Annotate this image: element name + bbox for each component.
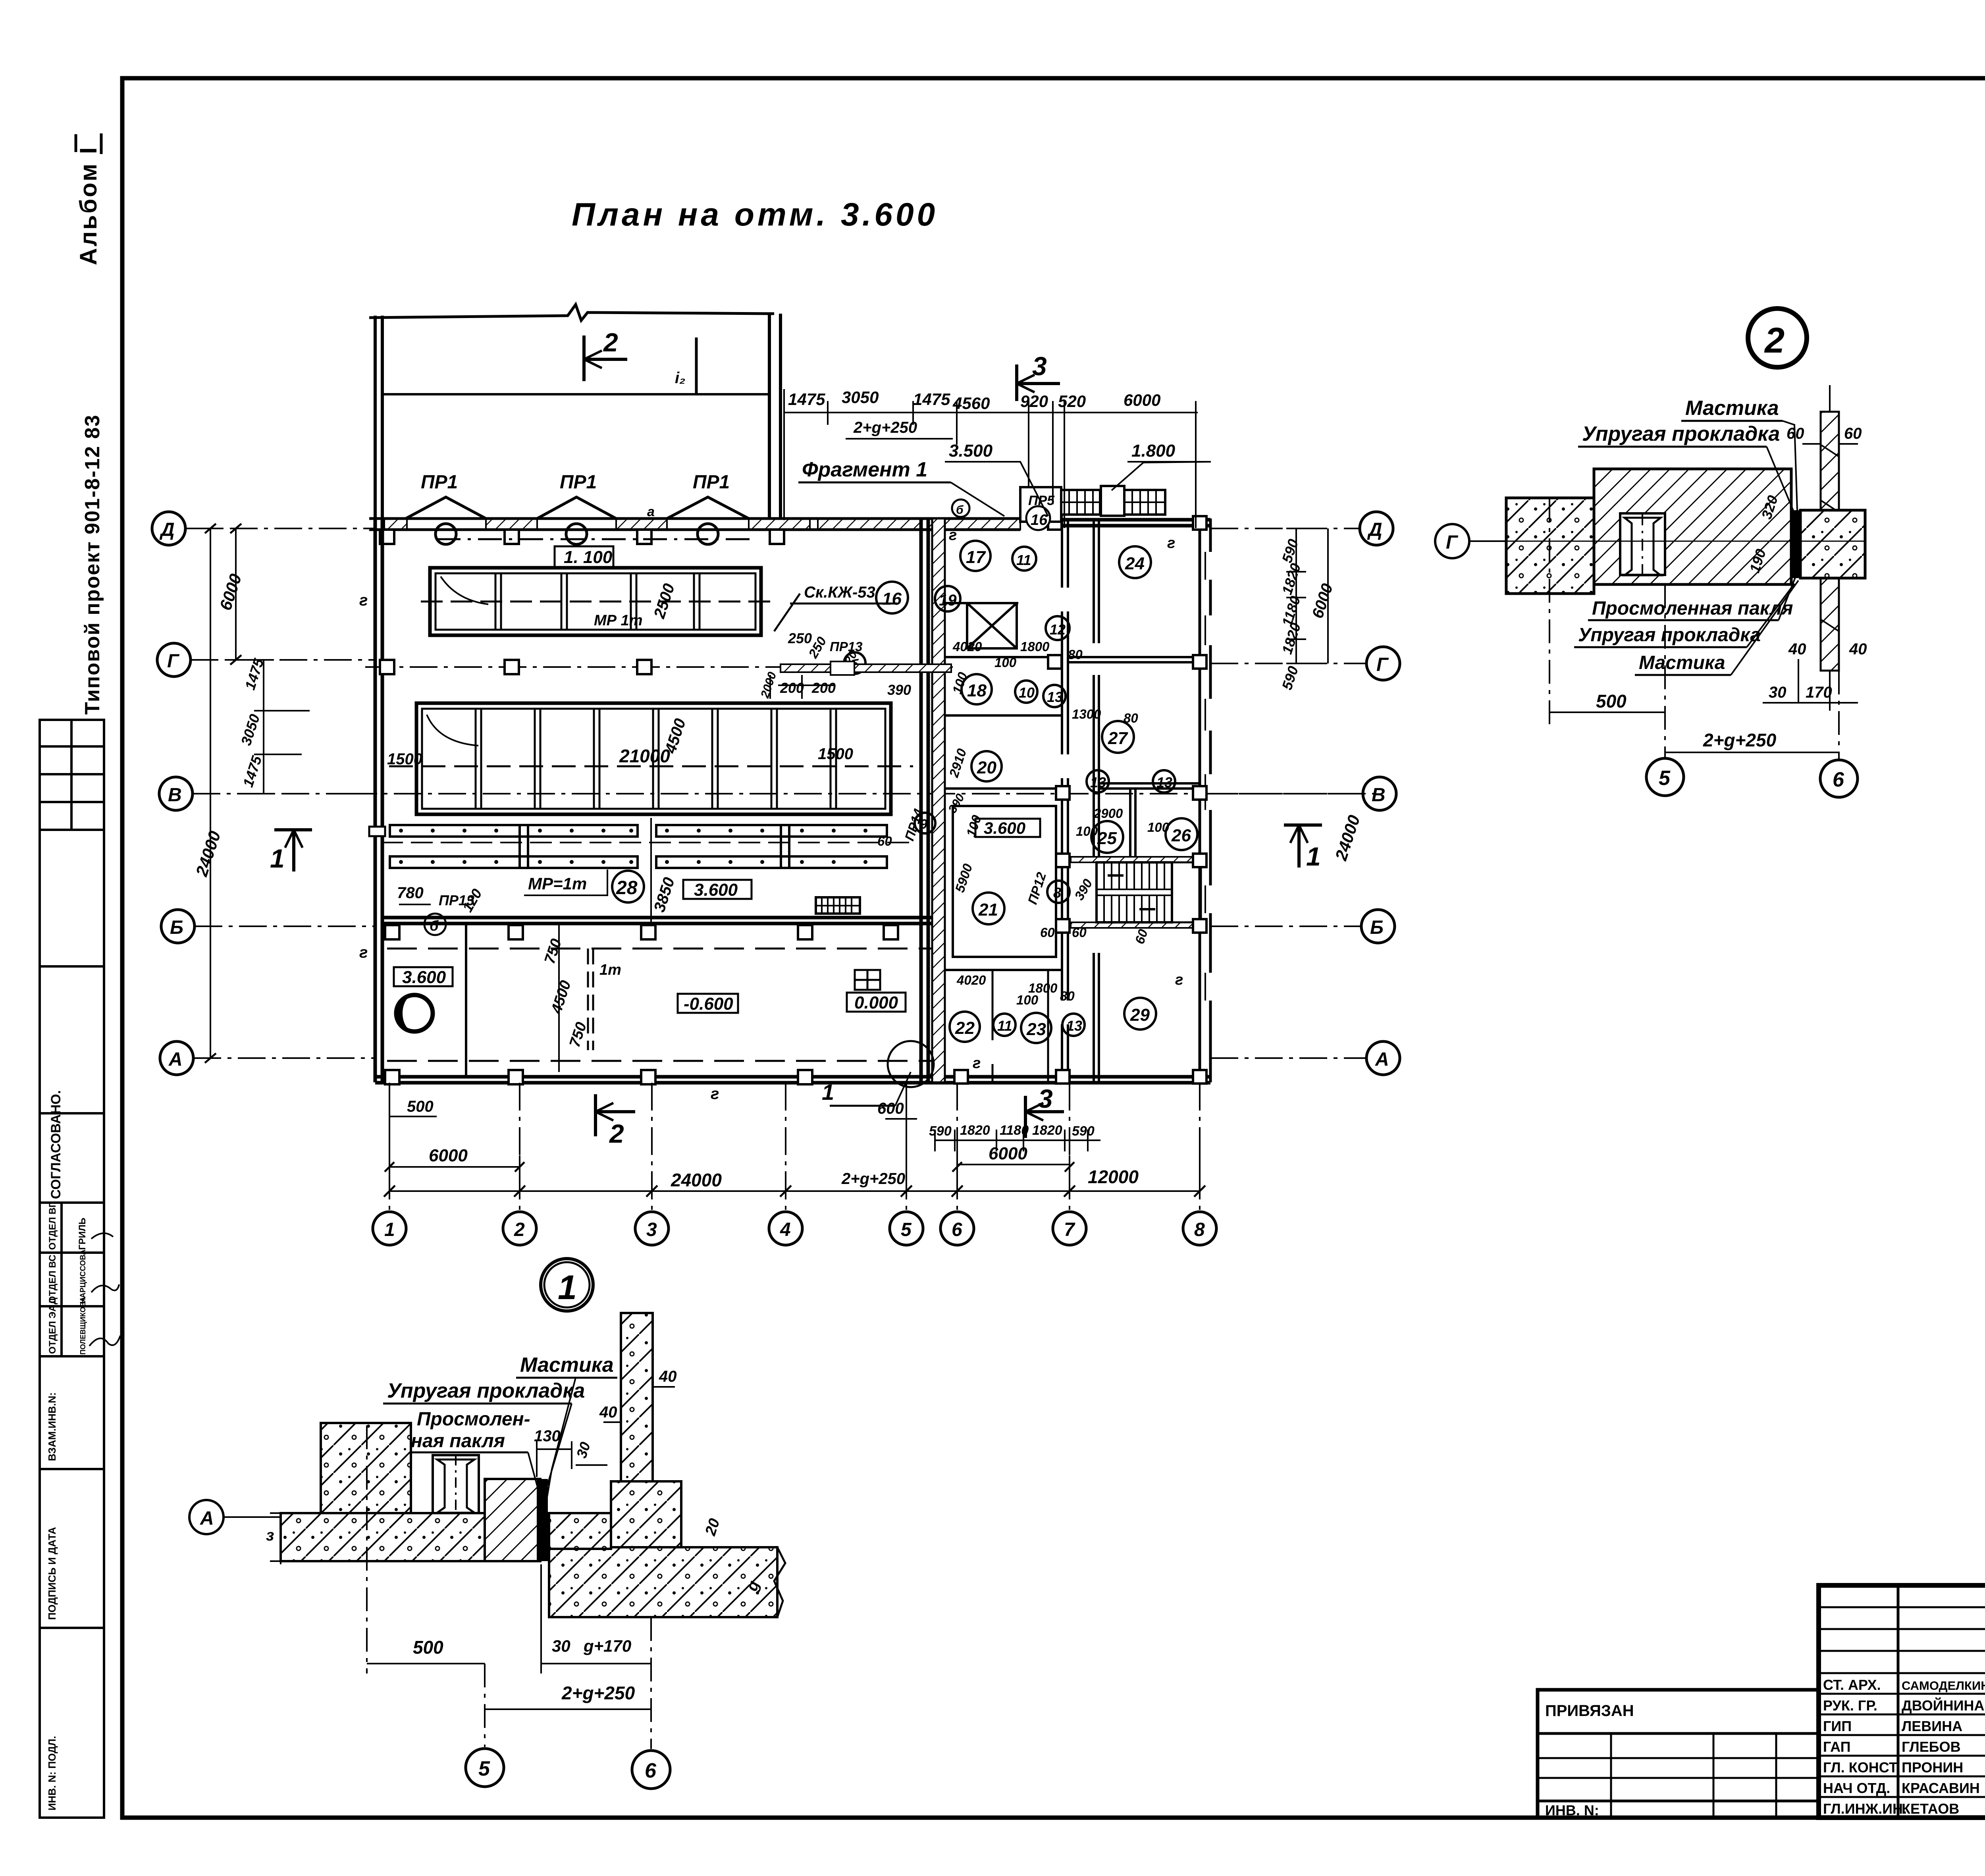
svg-text:10: 10 [1019, 684, 1035, 701]
circled b left [424, 914, 446, 935]
right axis lines + bubbles [1210, 528, 1366, 1058]
wall row B (Б) [382, 916, 945, 920]
svg-text:г: г [1167, 535, 1175, 551]
left bubbles [152, 512, 195, 1075]
rooms 25/26 top wall [1099, 787, 1200, 790]
svg-text:Альбом I: Альбом I [75, 146, 102, 265]
svg-text:1800: 1800 [1020, 639, 1050, 654]
level 3.600 lower-left [394, 967, 453, 986]
svg-text:г: г [359, 592, 368, 609]
svg-text:ГАП: ГАП [1823, 1739, 1851, 1755]
svg-text:6000: 6000 [1124, 391, 1160, 409]
svg-text:7: 7 [1064, 1219, 1075, 1240]
bottom grid bubbles [373, 1212, 1216, 1245]
svg-text:60: 60 [1072, 925, 1087, 940]
album label: Альбом I [75, 133, 102, 265]
right bubbles [1360, 512, 1400, 1075]
svg-text:б: б [430, 918, 439, 934]
svg-text:ГЛЕБОВ: ГЛЕБОВ [1902, 1739, 1961, 1755]
svg-text:21: 21 [978, 900, 998, 920]
svg-text:28: 28 [616, 877, 638, 898]
svg-text:6: 6 [1833, 768, 1844, 791]
section mark 2 bottom [595, 1094, 635, 1136]
svg-text:40: 40 [659, 1368, 677, 1385]
svg-text:г: г [711, 1085, 719, 1103]
svg-text:3: 3 [646, 1219, 657, 1240]
node1 upper wall panel [621, 1313, 653, 1481]
svg-text:Д: Д [159, 519, 175, 540]
svg-text:Мастика: Мастика [1639, 652, 1725, 673]
node1 break mark right [774, 1547, 785, 1617]
svg-text:г: г [949, 527, 957, 544]
room22/23 partitions [992, 970, 994, 1040]
svg-text:8: 8 [1053, 885, 1061, 901]
room21 box [953, 806, 1056, 957]
svg-text:3.500: 3.500 [949, 441, 993, 461]
circled 16 at PR5 [1026, 506, 1050, 530]
svg-text:Просмолен-: Просмолен- [417, 1409, 530, 1430]
svg-text:ПР13: ПР13 [830, 639, 862, 654]
svg-text:23: 23 [1026, 1020, 1046, 1039]
svg-text:8: 8 [1194, 1219, 1205, 1240]
axis row G dash-dot [365, 666, 953, 668]
right side vertical dims [1286, 528, 1328, 663]
dim 3850 rotated [651, 875, 678, 914]
svg-text:Упругая прокладка: Упругая прокладка [1578, 625, 1761, 646]
section mark 1 right [1284, 825, 1322, 868]
svg-text:Мастика: Мастика [1685, 397, 1779, 420]
node2 left concrete block [1506, 498, 1594, 594]
svg-text:1500: 1500 [818, 745, 853, 763]
node2 wall panel strip [1821, 412, 1839, 671]
svg-text:ЛЕВИНА: ЛЕВИНА [1902, 1718, 1962, 1734]
node2 I-beam [1620, 513, 1665, 575]
monitor PR1 no1 [406, 497, 486, 544]
svg-text:12: 12 [1050, 621, 1066, 638]
svg-text:40: 40 [1788, 640, 1806, 658]
svg-text:3.600: 3.600 [694, 880, 738, 900]
node1 right wall block [611, 1481, 681, 1549]
svg-text:А: А [1375, 1049, 1389, 1070]
svg-text:1: 1 [384, 1219, 395, 1240]
svg-text:1.800: 1.800 [1131, 441, 1176, 461]
svg-text:б: б [956, 503, 964, 517]
svg-text:200: 200 [811, 680, 836, 696]
svg-text:3: 3 [1032, 351, 1047, 381]
vertical dims lower hall [558, 925, 560, 1072]
corridor right wall [1094, 520, 1099, 1082]
svg-text:80: 80 [1060, 989, 1075, 1003]
node1 base slab [281, 1513, 537, 1561]
svg-text:2+g+250: 2+g+250 [841, 1170, 905, 1188]
svg-text:780: 780 [397, 884, 424, 902]
svg-text:Просмоленная пакля: Просмоленная пакля [1592, 598, 1793, 619]
bottom dim 6000s [389, 1166, 520, 1168]
svg-text:60: 60 [1786, 425, 1804, 442]
monitor PR1 no2 [537, 497, 616, 544]
svg-text:520: 520 [1058, 392, 1086, 411]
svg-text:60: 60 [1844, 425, 1862, 442]
svg-text:Г: Г [1446, 532, 1459, 553]
svg-text:26: 26 [1171, 826, 1191, 845]
svg-text:а: а [647, 504, 655, 519]
inner wall x1174 [465, 924, 467, 1077]
svg-text:100: 100 [994, 655, 1017, 670]
svg-text:ГРИЛЬ: ГРИЛЬ [77, 1218, 88, 1250]
bottom axis lines to bubbles [389, 1083, 1200, 1212]
elevator shaft [967, 603, 1017, 648]
svg-text:1: 1 [558, 1269, 577, 1307]
svg-text:ПОЛЕВЩИКОВА: ПОЛЕВЩИКОВА [79, 1297, 87, 1355]
svg-text:ПРИВЯЗАН: ПРИВЯЗАН [1545, 1702, 1634, 1720]
svg-text:0.000: 0.000 [854, 993, 898, 1012]
node2 bubbles 5 6 [1664, 584, 1666, 758]
svg-text:19: 19 [939, 592, 957, 609]
svg-text:60: 60 [1040, 925, 1055, 940]
svg-text:100: 100 [1147, 820, 1170, 835]
svg-text:Мастика: Мастика [520, 1353, 614, 1377]
top dim chain office [784, 389, 1198, 528]
upper gallery tank [421, 568, 770, 635]
svg-text:500: 500 [407, 1098, 434, 1115]
svg-text:29: 29 [1130, 1005, 1150, 1025]
svg-text:16: 16 [882, 589, 902, 609]
node1 circle [541, 1259, 593, 1311]
svg-text:ИНВ. N:: ИНВ. N: [1545, 1802, 1599, 1818]
svg-text:1: 1 [270, 844, 285, 873]
svg-text:17: 17 [966, 548, 986, 567]
svg-text:2: 2 [603, 328, 618, 357]
level 0.000 [847, 993, 906, 1012]
svg-text:600: 600 [877, 1100, 904, 1117]
svg-text:План на отм. 3.600: План на отм. 3.600 [572, 197, 938, 233]
svg-text:11: 11 [1016, 552, 1031, 568]
svg-text:i₂: i₂ [675, 369, 685, 387]
office bottom wall [957, 1075, 1210, 1079]
svg-text:2+g+250: 2+g+250 [561, 1683, 635, 1703]
svg-text:г: г [359, 944, 368, 961]
svg-text:130: 130 [534, 1427, 561, 1445]
clarifier channels group 2 [649, 825, 913, 868]
node1 center hatched pier [485, 1479, 540, 1561]
level 1.100 [555, 546, 613, 567]
svg-text:80: 80 [1068, 647, 1083, 662]
left small column marker row V [369, 827, 385, 836]
section mark 3 bottom [1025, 1096, 1064, 1138]
node1 right lower slab [549, 1547, 777, 1617]
svg-text:590: 590 [929, 1124, 952, 1139]
svg-text:170: 170 [1806, 684, 1832, 701]
node1 I-beam [433, 1455, 479, 1513]
svg-text:4020: 4020 [956, 973, 986, 987]
PR5 box [1020, 487, 1061, 522]
upper inner line [382, 393, 769, 395]
corridor left wall [1062, 520, 1068, 1082]
svg-text:1820: 1820 [960, 1123, 990, 1138]
svg-text:Д: Д [1367, 519, 1382, 540]
svg-text:1: 1 [822, 1080, 834, 1105]
svg-text:ПР1: ПР1 [421, 472, 458, 493]
svg-text:Фрагмент 1: Фрагмент 1 [802, 458, 927, 481]
svg-text:ная пакля: ная пакля [411, 1431, 505, 1452]
axis row V dash-dot [349, 793, 1374, 794]
upper break line [369, 305, 774, 320]
svg-text:САМОДЕЛКИНА: САМОДЕЛКИНА [1902, 1679, 1985, 1693]
grate [816, 897, 860, 914]
svg-text:Упругая прокладка: Упругая прокладка [1582, 422, 1780, 445]
sump circle [396, 995, 433, 1032]
svg-text:В: В [1372, 785, 1386, 806]
svg-text:5: 5 [901, 1219, 912, 1240]
svg-text:1. 100: 1. 100 [564, 548, 613, 567]
svg-text:ИНВ. N: ПОДЛ.: ИНВ. N: ПОДЛ. [46, 1736, 58, 1810]
wall row D with piers [369, 519, 1020, 530]
hall right wall [919, 519, 923, 1082]
svg-text:590: 590 [1072, 1124, 1095, 1139]
title block [1819, 1585, 1985, 1818]
dashed axis under monitors [437, 538, 754, 540]
big tank block [389, 703, 913, 814]
node1 axis A bubble left [189, 1500, 224, 1534]
bottom small dims [935, 1130, 1100, 1151]
svg-text:g+170: g+170 [583, 1637, 631, 1655]
wall row A (bottom) [375, 1075, 957, 1079]
svg-text:Г: Г [1376, 654, 1389, 675]
svg-text:6: 6 [645, 1759, 657, 1782]
svg-text:30: 30 [1769, 684, 1786, 701]
office right wall with windows [1200, 519, 1210, 1082]
svg-text:Г: Г [167, 651, 180, 672]
left wall of hall [374, 520, 377, 1082]
columns row D [380, 530, 784, 544]
svg-text:ГЛ.ИНЖ.ИН.: ГЛ.ИНЖ.ИН. [1823, 1801, 1907, 1817]
office dim texts [877, 527, 1183, 1072]
left axis lines [185, 528, 375, 1058]
svg-text:ПРОНИН: ПРОНИН [1902, 1759, 1963, 1776]
node2 right concrete block [1800, 510, 1865, 578]
room19/18 partition [945, 656, 1062, 658]
svg-text:ГИП: ГИП [1823, 1718, 1852, 1734]
svg-text:2+g+250: 2+g+250 [853, 419, 917, 436]
svg-text:3: 3 [1038, 1084, 1053, 1113]
svg-text:ОТДЕЛ ВГ: ОТДЕЛ ВГ [47, 1202, 58, 1250]
svg-text:4560: 4560 [952, 394, 990, 413]
svg-text:18: 18 [967, 681, 987, 700]
svg-text:Упругая прокладка: Упругая прокладка [387, 1379, 585, 1402]
svg-text:24000: 24000 [671, 1170, 722, 1190]
node2 320/190 rotated dims [1758, 494, 1781, 521]
privyazan stamp [1538, 1690, 1819, 1818]
svg-text:ПОДПИСЬ И ДАТА: ПОДПИСЬ И ДАТА [46, 1527, 58, 1620]
room circle 28 [612, 871, 644, 902]
node2 joint black [1791, 510, 1800, 578]
svg-text:4020: 4020 [952, 639, 982, 654]
node1 bubbles 5 6 [484, 1664, 486, 1747]
office left wall hatched [932, 519, 945, 1082]
svg-text:НАЧ ОТД.: НАЧ ОТД. [1823, 1780, 1890, 1796]
svg-text:40: 40 [1849, 640, 1867, 658]
project label: Типовой проект 901-8-12 83 [81, 414, 104, 715]
svg-text:Б: Б [170, 917, 183, 938]
fragment callout circle at corner [888, 1041, 934, 1087]
svg-text:МР 1т: МР 1т [594, 612, 642, 629]
svg-text:А: А [168, 1049, 183, 1070]
svg-text:з: з [266, 1527, 274, 1544]
channel dots [399, 829, 867, 864]
svg-text:Б: Б [1370, 917, 1384, 938]
svg-text:НАРЦИССОВА: НАРЦИССОВА [79, 1249, 87, 1303]
roof ladder grate 1 [1061, 490, 1100, 515]
node2 axis G bubble [1435, 524, 1469, 558]
small mark i [695, 337, 698, 393]
svg-text:г: г [1175, 972, 1183, 988]
svg-text:КРАСАВИН: КРАСАВИН [1902, 1780, 1980, 1796]
svg-text:5: 5 [1659, 767, 1671, 790]
svg-text:2900: 2900 [1093, 806, 1123, 821]
roof ladder grate 2 [1124, 490, 1165, 515]
svg-text:22: 22 [955, 1018, 975, 1038]
svg-text:40: 40 [599, 1404, 617, 1421]
svg-text:16: 16 [1031, 512, 1048, 528]
row G wall room24 [1068, 656, 1200, 658]
monitor PR1 no3 [667, 497, 749, 544]
svg-text:2+g+250: 2+g+250 [1703, 730, 1777, 750]
room20/21 partition [945, 787, 1062, 790]
node1 left upper concrete block [321, 1423, 411, 1513]
svg-text:390: 390 [887, 682, 911, 698]
svg-text:920: 920 [1020, 392, 1048, 411]
svg-text:20: 20 [977, 758, 996, 777]
svg-text:1500: 1500 [387, 750, 422, 768]
circled b at row D joint [952, 499, 969, 517]
svg-text:25: 25 [1097, 829, 1117, 848]
svg-text:В: В [168, 785, 182, 806]
svg-text:2: 2 [609, 1119, 624, 1148]
room18/20 partition [945, 714, 1062, 717]
room 25/26 divider [1129, 789, 1131, 858]
node2 main hatched block [1594, 469, 1791, 584]
svg-text:ПР1: ПР1 [693, 472, 730, 493]
svg-text:2: 2 [1764, 321, 1785, 361]
hatched wall piece row G office [781, 664, 951, 672]
room number circles [844, 541, 1197, 1043]
left stamp table [40, 720, 104, 1818]
svg-text:4: 4 [780, 1219, 791, 1240]
crane rail dashed [587, 949, 589, 1050]
svg-text:12000: 12000 [1088, 1166, 1139, 1187]
svg-text:30: 30 [552, 1637, 570, 1655]
svg-text:г: г [973, 1055, 981, 1072]
svg-text:-0.600: -0.600 [684, 994, 733, 1014]
columns row B [385, 925, 898, 939]
upper left wall [374, 316, 377, 520]
svg-text:1820: 1820 [1032, 1123, 1062, 1138]
svg-text:Ск.КЖ-53: Ск.КЖ-53 [804, 584, 875, 601]
room17/19 partition [945, 602, 1018, 604]
level 3.600 office [975, 819, 1040, 837]
office corner columns [954, 516, 1206, 1084]
svg-text:МР=1т: МР=1т [528, 874, 587, 893]
svg-text:СТ. АРХ.: СТ. АРХ. [1823, 1677, 1881, 1693]
svg-text:250: 250 [788, 630, 812, 646]
upper right wall [768, 314, 771, 520]
left stamp texts [46, 1090, 120, 1810]
node1 dim 30 right [573, 1440, 594, 1460]
svg-text:КЕТАОВ: КЕТАОВ [1902, 1801, 1959, 1817]
svg-text:1300: 1300 [1072, 707, 1101, 721]
svg-text:1475: 1475 [788, 390, 825, 409]
columns row G [380, 660, 651, 674]
svg-text:24: 24 [1125, 554, 1145, 573]
svg-text:ПР1: ПР1 [560, 472, 597, 493]
svg-text:6: 6 [952, 1219, 962, 1240]
equipment box [855, 970, 880, 990]
section mark 3 top [1017, 364, 1060, 401]
svg-text:6000: 6000 [989, 1144, 1027, 1163]
svg-text:3050: 3050 [842, 388, 879, 407]
svg-text:2: 2 [514, 1219, 525, 1240]
node1 joint black [537, 1479, 548, 1561]
svg-text:11: 11 [997, 1018, 1012, 1034]
svg-text:60: 60 [877, 834, 892, 848]
svg-text:500: 500 [413, 1637, 443, 1658]
svg-text:100: 100 [1076, 824, 1098, 839]
svg-text:СОГЛАСОВАНО.: СОГЛАСОВАНО. [48, 1090, 64, 1199]
room21/22 partition [945, 969, 1062, 971]
stair block [1071, 857, 1201, 928]
svg-text:1: 1 [1306, 842, 1321, 871]
svg-text:27: 27 [1108, 729, 1128, 748]
left dim lines [200, 528, 310, 1058]
lower hall dashed lines [387, 948, 941, 950]
svg-text:ДВОЙНИНА: ДВОЙНИНА [1902, 1697, 1985, 1714]
node1 dim g right rotated [743, 1579, 763, 1594]
white box between grates [1101, 486, 1124, 516]
level 3.600 box hall [683, 880, 752, 899]
svg-text:1475: 1475 [913, 390, 950, 409]
svg-text:5: 5 [478, 1757, 490, 1780]
clarifier channels group 1 [381, 825, 643, 868]
section mark 2 top [584, 335, 627, 381]
svg-text:ГЛ. КОНСТ.: ГЛ. КОНСТ. [1823, 1759, 1900, 1776]
svg-text:3.600: 3.600 [402, 968, 446, 987]
section mark 1 left [274, 830, 312, 871]
svg-text:3.600: 3.600 [984, 819, 1025, 837]
svg-text:200: 200 [780, 680, 804, 696]
svg-text:ОТДЕЛ ВС: ОТДЕЛ ВС [47, 1255, 58, 1303]
svg-text:80: 80 [1124, 711, 1138, 725]
svg-text:6000: 6000 [429, 1146, 468, 1165]
columns row A [385, 1070, 812, 1084]
room24 top wall right of PR5 [1056, 518, 1210, 522]
node 2 circle [1748, 308, 1807, 367]
svg-text:1т: 1т [599, 962, 621, 978]
svg-text:А: А [200, 1508, 214, 1529]
svg-text:13: 13 [1066, 1018, 1082, 1034]
svg-text:500: 500 [1596, 691, 1627, 711]
svg-text:РУК. ГР.: РУК. ГР. [1823, 1697, 1877, 1714]
level -0.600 [678, 994, 738, 1013]
svg-text:Типовой проект 901-8-12 83: Типовой проект 901-8-12 83 [81, 414, 104, 715]
svg-text:13: 13 [1047, 689, 1063, 705]
svg-text:ОТДЕЛ ЭАД: ОТДЕЛ ЭАД [47, 1298, 58, 1354]
svg-text:100: 100 [1016, 993, 1039, 1007]
bottom dim line 24000/12000 [389, 1096, 1200, 1199]
node1 dim 20 [702, 1517, 723, 1538]
svg-text:ВЗАМ.ИНВ.N:: ВЗАМ.ИНВ.N: [46, 1392, 58, 1461]
